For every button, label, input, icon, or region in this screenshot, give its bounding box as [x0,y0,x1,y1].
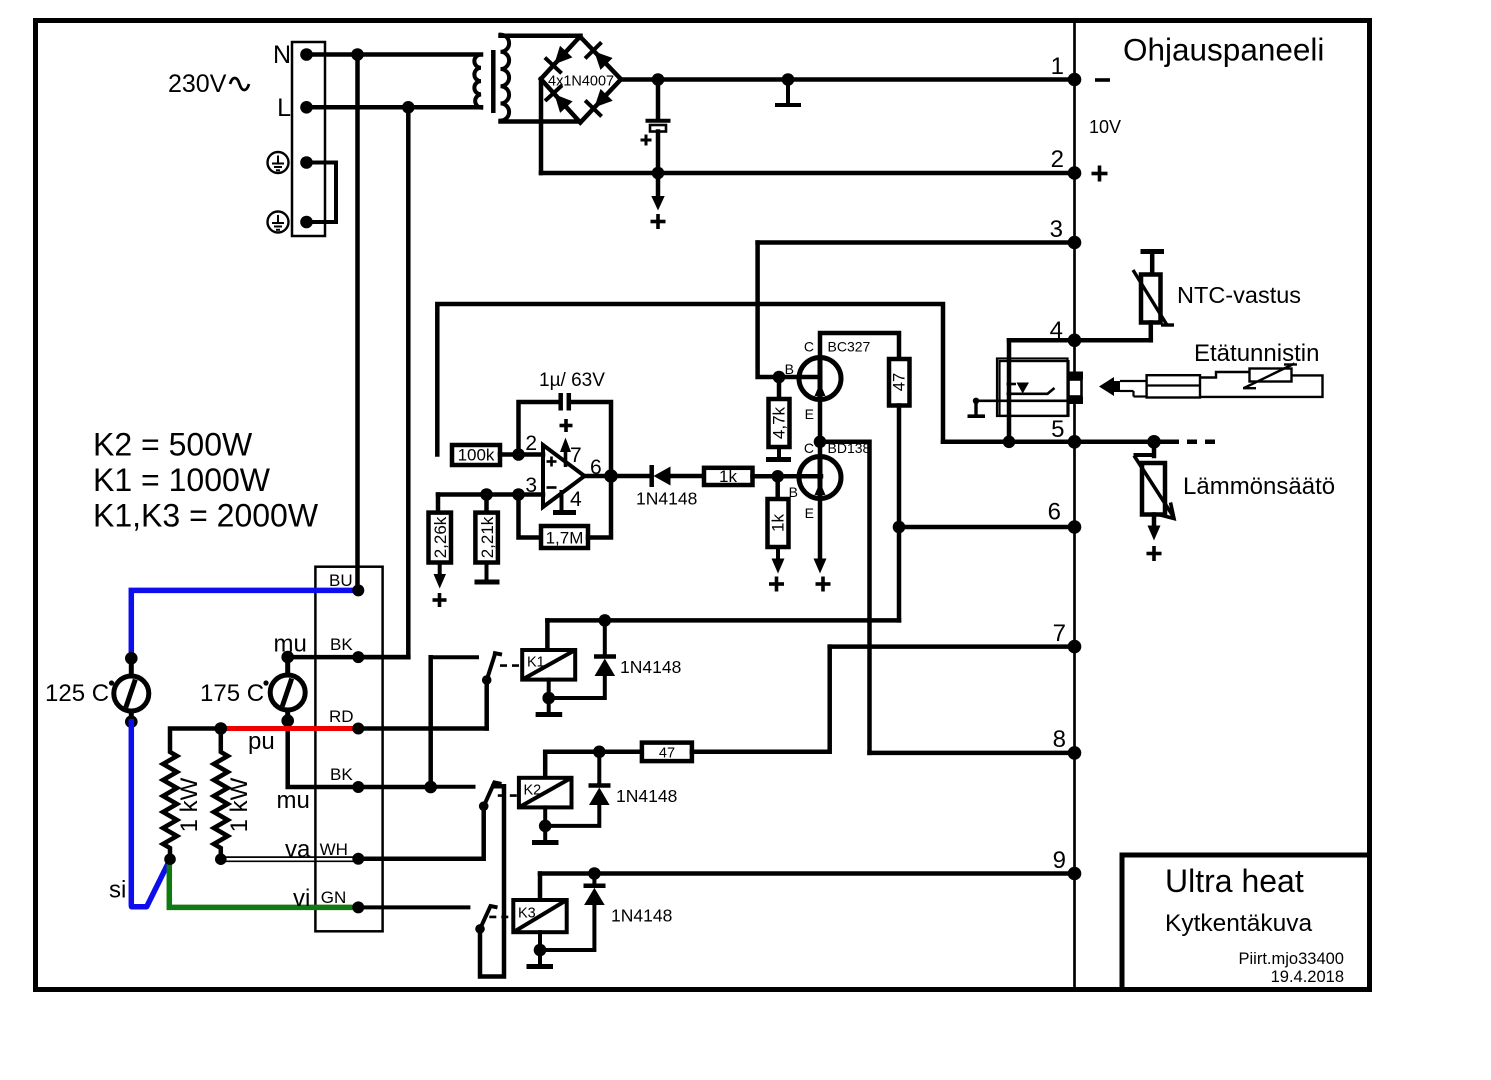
wire terminal 7 row [830,644,1075,649]
svg-text:2,21k: 2,21k [478,516,497,558]
svg-text:N: N [273,41,291,69]
svg-text:47: 47 [891,373,909,391]
node cap top [652,73,665,86]
transistor Q1 BC327 [799,358,841,400]
plus mark below 1k [769,577,784,592]
node jack bottom [1003,436,1016,449]
node lammonsaato [1147,435,1161,449]
wire bridge plus rail to terminal 1 [621,77,1075,82]
bridge diode bottom-left [546,87,573,114]
wire BC327 collector to 47 resistor [820,333,899,359]
wire vi green [169,861,358,908]
wire RD row to K1 common [358,726,486,731]
svg-text:100k: 100k [458,446,495,465]
plus mark pin7 [560,419,573,432]
earth symbol 2 [268,212,289,233]
svg-text:3: 3 [1050,216,1063,243]
terminal 3 [1068,236,1082,250]
svg-text:E: E [805,505,814,521]
svg-text:K2 = 500W: K2 = 500W [93,426,253,462]
svg-text:Lämmönsäätö: Lämmönsäätö [1183,473,1335,500]
terminal 1 [1068,73,1082,87]
node K2 fixed [424,781,437,794]
diode D3 1N4148 K1 [603,620,607,654]
wire BK to L riser [358,655,408,660]
svg-text:Piirt.mjo33400: Piirt.mjo33400 [1239,950,1344,968]
terminal 8 [1068,746,1082,760]
bridge rectifier diamond [541,37,621,123]
wire BK row mu [288,655,409,660]
wire node down to K1 row [897,527,902,620]
wire K3 top row to terminal 9 [540,871,1075,876]
terminal 4 [1068,334,1082,348]
wire terminal 5 row [943,440,1168,445]
wire secondary bottom to bridge [501,119,581,124]
svg-text:4: 4 [1050,317,1063,344]
dashed continuation [1169,440,1215,445]
svg-text:K1 = 1000W: K1 = 1000W [93,462,271,498]
ground bar below 2,21k [485,563,489,581]
svg-text:Kytkentäkuva: Kytkentäkuva [1165,910,1312,937]
wire 175C down to BK2 row [288,721,431,787]
wire va white double line [221,857,358,861]
terminal 6 [1068,520,1082,534]
wire K2 top row [545,750,642,755]
earth symbol 1 [268,152,289,173]
jack ground branch [968,398,1068,417]
wire L to BK [406,107,411,657]
wire 47 down to node [897,406,902,528]
node pu [215,722,228,735]
minus mark [1095,78,1110,82]
svg-text:1N4148: 1N4148 [611,906,672,926]
plus mark below arrow [651,214,666,229]
node K2 diode top [593,746,606,759]
wire BD138 collector to terminal 8 [820,442,870,753]
plus mark lammonsaato [1147,546,1162,561]
node output [604,469,618,483]
svg-text:BK: BK [330,765,353,784]
svg-text:GN: GN [321,888,347,907]
wire si blue [131,722,169,907]
plus mark BD138 emitter [816,577,831,592]
svg-text:1: 1 [1051,53,1064,80]
wire terminal3 branch down to BC327 base [758,243,820,378]
wire 100k to pin2 [500,452,543,457]
svg-text:BU: BU [329,571,353,590]
wire terminal 3 [758,240,1075,245]
resistor 1k horizontal [704,468,753,485]
resistor 1k base [775,476,780,499]
svg-text:4,7k: 4,7k [770,406,789,439]
ground bar below 4,7k [777,447,781,457]
svg-text:K3: K3 [518,906,536,922]
svg-text:1N4148: 1N4148 [616,786,677,806]
mains terminal block [292,42,325,236]
svg-text:1k: 1k [719,467,737,486]
bridge diode top-right [586,44,613,71]
terminal 7 [1068,640,1082,654]
svg-text:1k: 1k [769,514,788,532]
svg-text:C: C [804,440,814,456]
svg-text:E: E [805,406,814,422]
pin7 supply arrow [564,450,568,467]
svg-text:1,7M: 1,7M [546,529,584,548]
svg-text:mu: mu [277,787,310,814]
node pin2 [512,448,525,461]
K1 coil bottom [547,680,551,712]
resistor 1,7M feedback [519,495,542,538]
switch S3 contact K3 [358,905,468,909]
ground arrow below cap [656,173,661,197]
thermal switch 175C [270,651,305,727]
wire L [307,105,482,110]
wire K1 top row [547,618,899,623]
svg-text:230V: 230V [168,70,227,98]
svg-text:5: 5 [1051,416,1064,443]
plus mark below 2,26k [433,593,447,607]
connector block [315,567,382,932]
switch S2 contact K2 [431,785,474,789]
dashed link K1 [500,664,522,667]
tick K2 arm [493,782,502,784]
svg-text:47: 47 [659,746,675,762]
svg-text:2,26k: 2,26k [431,516,450,558]
opamp minus input mark [547,486,557,489]
svg-text:Ohjauspaneeli: Ohjauspaneeli [1123,32,1324,68]
relay K2 coil [543,752,548,778]
svg-text:9: 9 [1053,847,1066,874]
wire terminal 6 row [899,525,1075,530]
earth bracket wire [309,163,336,223]
node heater right bottom [215,853,227,865]
svg-text:1N4148: 1N4148 [636,489,697,509]
chassis stub [786,80,790,104]
node K1 diode top [599,614,612,627]
title block [1122,855,1370,990]
svg-text:WH: WH [320,840,348,859]
wire secondary top to bridge [501,36,581,38]
rheostat Lammonsaato [1134,442,1174,541]
capacitor C2 electrolytic [656,80,661,120]
svg-text:10V: 10V [1089,117,1121,137]
pin4 ground [560,492,564,511]
heater resistor R left 1kW [163,729,221,859]
relay K3 coil [538,874,543,901]
wire terminal 8 row [870,751,1075,756]
svg-text:1N4148: 1N4148 [620,657,681,677]
wire K1 common down to RD row [484,680,489,729]
K2 coil bottom [543,807,547,840]
switch S1 contact K1 [431,655,477,659]
thermal switch 125C [114,652,149,728]
svg-text:Etätunnistin: Etätunnistin [1194,340,1319,367]
wire K2 NO contact to K3 common [480,786,504,976]
resistor 4,7k [777,377,782,399]
sine symbol [230,78,249,90]
diode D4 1N4148 K2 [597,752,601,784]
resistor 47 vertical [889,359,910,406]
dashed link K2 [498,794,518,797]
node BD138 base [771,470,784,483]
node L branch [402,101,415,114]
wire opamp output [585,474,649,479]
transformer T1 primary [474,55,481,108]
svg-text:4x1N4007: 4x1N4007 [548,74,614,90]
node BC327 base [773,371,786,384]
svg-text:vi: vi [293,885,310,912]
BD138 emitter arrow [818,499,823,561]
heater resistor R right 1kW [214,729,228,860]
capacitor 1u/63V [519,402,558,455]
svg-text:BC327: BC327 [828,339,871,355]
transformer core [491,50,496,113]
svg-text:va: va [285,836,311,863]
svg-text:K1: K1 [527,655,545,671]
svg-text:Ultra heat: Ultra heat [1165,863,1304,899]
node terminal6 branch [893,521,906,534]
bridge diode top-left [546,45,573,72]
svg-text:8: 8 [1053,726,1066,753]
svg-text:2: 2 [525,432,537,455]
node 1,7M branch [512,488,525,501]
node cap bottom [652,167,665,180]
node heater left bottom [164,853,176,865]
wire terminal 4 row [1009,338,1151,343]
svg-text:RD: RD [329,707,354,726]
svg-text:175 C: 175 C [200,680,264,707]
terminal 2 [1068,166,1082,180]
svg-text:BK: BK [330,635,353,654]
K3 coil bottom [538,932,542,964]
svg-text:pu: pu [248,728,275,755]
node N branch [351,48,364,61]
node 2,21k [480,488,493,501]
node BD138 collector [814,436,827,449]
wire BU blue [131,590,358,655]
svg-text:BD138: BD138 [828,440,871,456]
svg-text:7: 7 [570,444,582,467]
wire BC327 emitter to BD138 collector [818,400,823,458]
remote sensor plug symbol [1099,364,1323,398]
opamp plus input mark [547,457,557,467]
svg-text:125 C: 125 C [45,680,109,707]
panel separator line [1073,23,1076,987]
resistor 100k [452,445,500,465]
resistor 2,26k [436,495,441,513]
resistor 47 horizontal [642,743,692,762]
arrow below 1k [776,547,780,560]
wire K2 common down to WH row [358,806,483,859]
wire pu red [222,726,358,731]
arrow below 2,26k [438,563,442,576]
wire 47 to terminal 7 riser [692,647,830,752]
node K3 diode top [588,867,601,880]
svg-text:B: B [785,361,794,377]
relay K1 coil [545,620,550,650]
wire minus rail to terminal 2 [541,171,1075,176]
svg-text:C: C [804,339,814,355]
terminal 5 [1068,435,1082,449]
node stub [782,73,795,86]
svg-text:19.4.2018: 19.4.2018 [1271,968,1344,986]
op-amp U1 [543,445,585,507]
transformer T1 secondary [501,35,510,121]
wire N [307,52,482,57]
svg-text:NTC-vastus: NTC-vastus [1177,282,1301,308]
plus mark t2 [1092,166,1108,182]
dashed link K3 [489,916,512,919]
terminal 9 [1068,867,1082,881]
svg-text:1 kW: 1 kW [226,777,253,832]
svg-text:1 kW: 1 kW [176,777,203,832]
svg-text:K2: K2 [524,783,542,799]
wire N to BU [355,55,360,591]
svg-text:si: si [109,877,126,904]
wire bridge left corner down [539,79,544,173]
jack socket box [997,359,1068,417]
connector terminal dots [352,584,364,596]
thermistor NTC [1133,252,1174,341]
svg-text:K1,K3 = 2000W: K1,K3 = 2000W [93,498,319,534]
diode D2 1N4148 [649,465,654,487]
svg-text:4: 4 [570,488,582,511]
plus mark cap [641,135,652,146]
svg-text:L: L [277,94,291,122]
jack switch [1006,381,1054,396]
transistor Q2 BD138 [799,457,841,499]
wire 100k up and over to terminal 5 row [437,304,943,455]
terminal dots N L E1 E2 [300,48,313,61]
bridge diode bottom-right [587,88,614,115]
svg-text:7: 7 [1053,620,1066,647]
jack contacts [1068,372,1084,380]
resistor 2,21k [484,495,489,513]
svg-text:2: 2 [1051,146,1064,173]
jack wire from terminal4 [1007,340,1012,442]
wire 1k to BD138 base [753,474,822,479]
wire K1 fixed to BK2 node [428,657,433,787]
svg-text:1µ/ 63V: 1µ/ 63V [539,370,605,391]
svg-text:6: 6 [1048,499,1061,526]
diode D5 1N4148 K3 [592,874,596,884]
wire pin3 row [438,492,543,497]
